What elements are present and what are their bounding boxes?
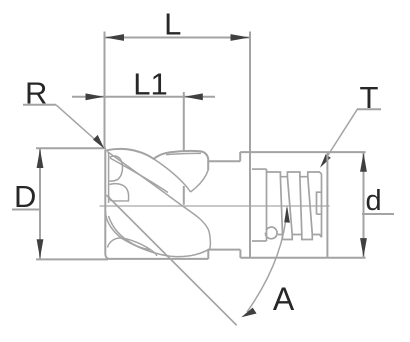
- dimension d line: [363, 152, 365, 258]
- lens inner lower curve: [109, 216, 151, 250]
- neck top edge: [209, 160, 241, 162]
- svg-text:L: L: [164, 7, 181, 42]
- angle A upper arrow: [284, 206, 290, 223]
- facet lower: [109, 184, 128, 201]
- dimension L line: [105, 37, 251, 39]
- dimension L1 line: [72, 96, 215, 98]
- lens lower edge: [106, 211, 210, 257]
- leader R arrow: [93, 135, 104, 149]
- flute lower-left blob: [108, 238, 157, 256]
- svg-text:L1: L1: [133, 67, 167, 102]
- cutter head bottom edge: [109, 258, 208, 260]
- shank top edge: [240, 151, 327, 153]
- thread bore bottom shoulder: [252, 240, 267, 242]
- dimension L1 left arrow: [86, 93, 105, 100]
- label T underline: [357, 108, 381, 110]
- cutter head top silhouette: [105, 149, 208, 170]
- flute grand curve: [107, 152, 210, 249]
- label d underline: [362, 213, 394, 215]
- thread end face: [321, 174, 323, 238]
- helix edge line: [107, 195, 237, 325]
- thread top profile: [267, 172, 322, 177]
- thread end boss: [317, 192, 322, 214]
- cutter head bottom right face: [207, 250, 209, 259]
- thread relief notch: [265, 227, 277, 239]
- dimension L1 right extension: [183, 92, 185, 205]
- thread left boundary: [266, 169, 268, 241]
- dimension d bottom extension: [327, 257, 365, 259]
- svg-text:D: D: [14, 179, 36, 214]
- label R underline: [23, 104, 56, 106]
- svg-text:A: A: [273, 281, 295, 317]
- leader R: [56, 105, 100, 144]
- shank bottom edge: [240, 257, 327, 259]
- flange bottom step: [239, 250, 241, 258]
- dimension d top extension: [327, 151, 365, 153]
- shank right face: [326, 152, 328, 258]
- flange top step: [239, 152, 241, 161]
- dimension d bottom arrow: [360, 238, 367, 257]
- cutter head left face: [105, 150, 109, 259]
- flute face inner line: [108, 153, 110, 203]
- facet upper: [110, 156, 123, 181]
- dimension L1 right arrow: [184, 93, 203, 100]
- svg-text:T: T: [360, 80, 379, 115]
- dimension D bottom arrow: [37, 239, 44, 258]
- angle A lower arrow: [241, 308, 256, 318]
- thread flank line 4: [308, 177, 313, 235]
- thread flank line 3: [300, 177, 302, 235]
- thread bore top shoulder: [252, 168, 267, 170]
- dimension D top arrow: [37, 149, 44, 168]
- label D underline: [12, 209, 41, 211]
- svg-text:d: d: [366, 185, 382, 217]
- centerline: [100, 205, 330, 207]
- dimension D top extension: [36, 147, 106, 149]
- leader T: [323, 109, 357, 163]
- angle A arc: [247, 208, 287, 312]
- thread bottom profile: [278, 235, 322, 240]
- flute second edge: [110, 158, 168, 193]
- dimension L right extension: [249, 32, 251, 258]
- thread flank line 1: [280, 177, 282, 235]
- neck bottom edge: [208, 249, 241, 251]
- flute leaf inner top line: [166, 153, 201, 154]
- dimension D bottom extension: [36, 258, 108, 260]
- flute leaf right edge: [191, 170, 209, 192]
- dimension D line: [39, 149, 41, 259]
- dimension L right arrow: [231, 34, 250, 41]
- flute leaf left edge: [154, 159, 191, 192]
- dimension L left extension: [104, 32, 106, 149]
- svg-text:R: R: [25, 76, 47, 111]
- thread flank line 2: [287, 177, 292, 235]
- leader T arrow: [320, 154, 331, 168]
- dimension L left arrow: [105, 34, 124, 41]
- dimension d top arrow: [360, 153, 367, 172]
